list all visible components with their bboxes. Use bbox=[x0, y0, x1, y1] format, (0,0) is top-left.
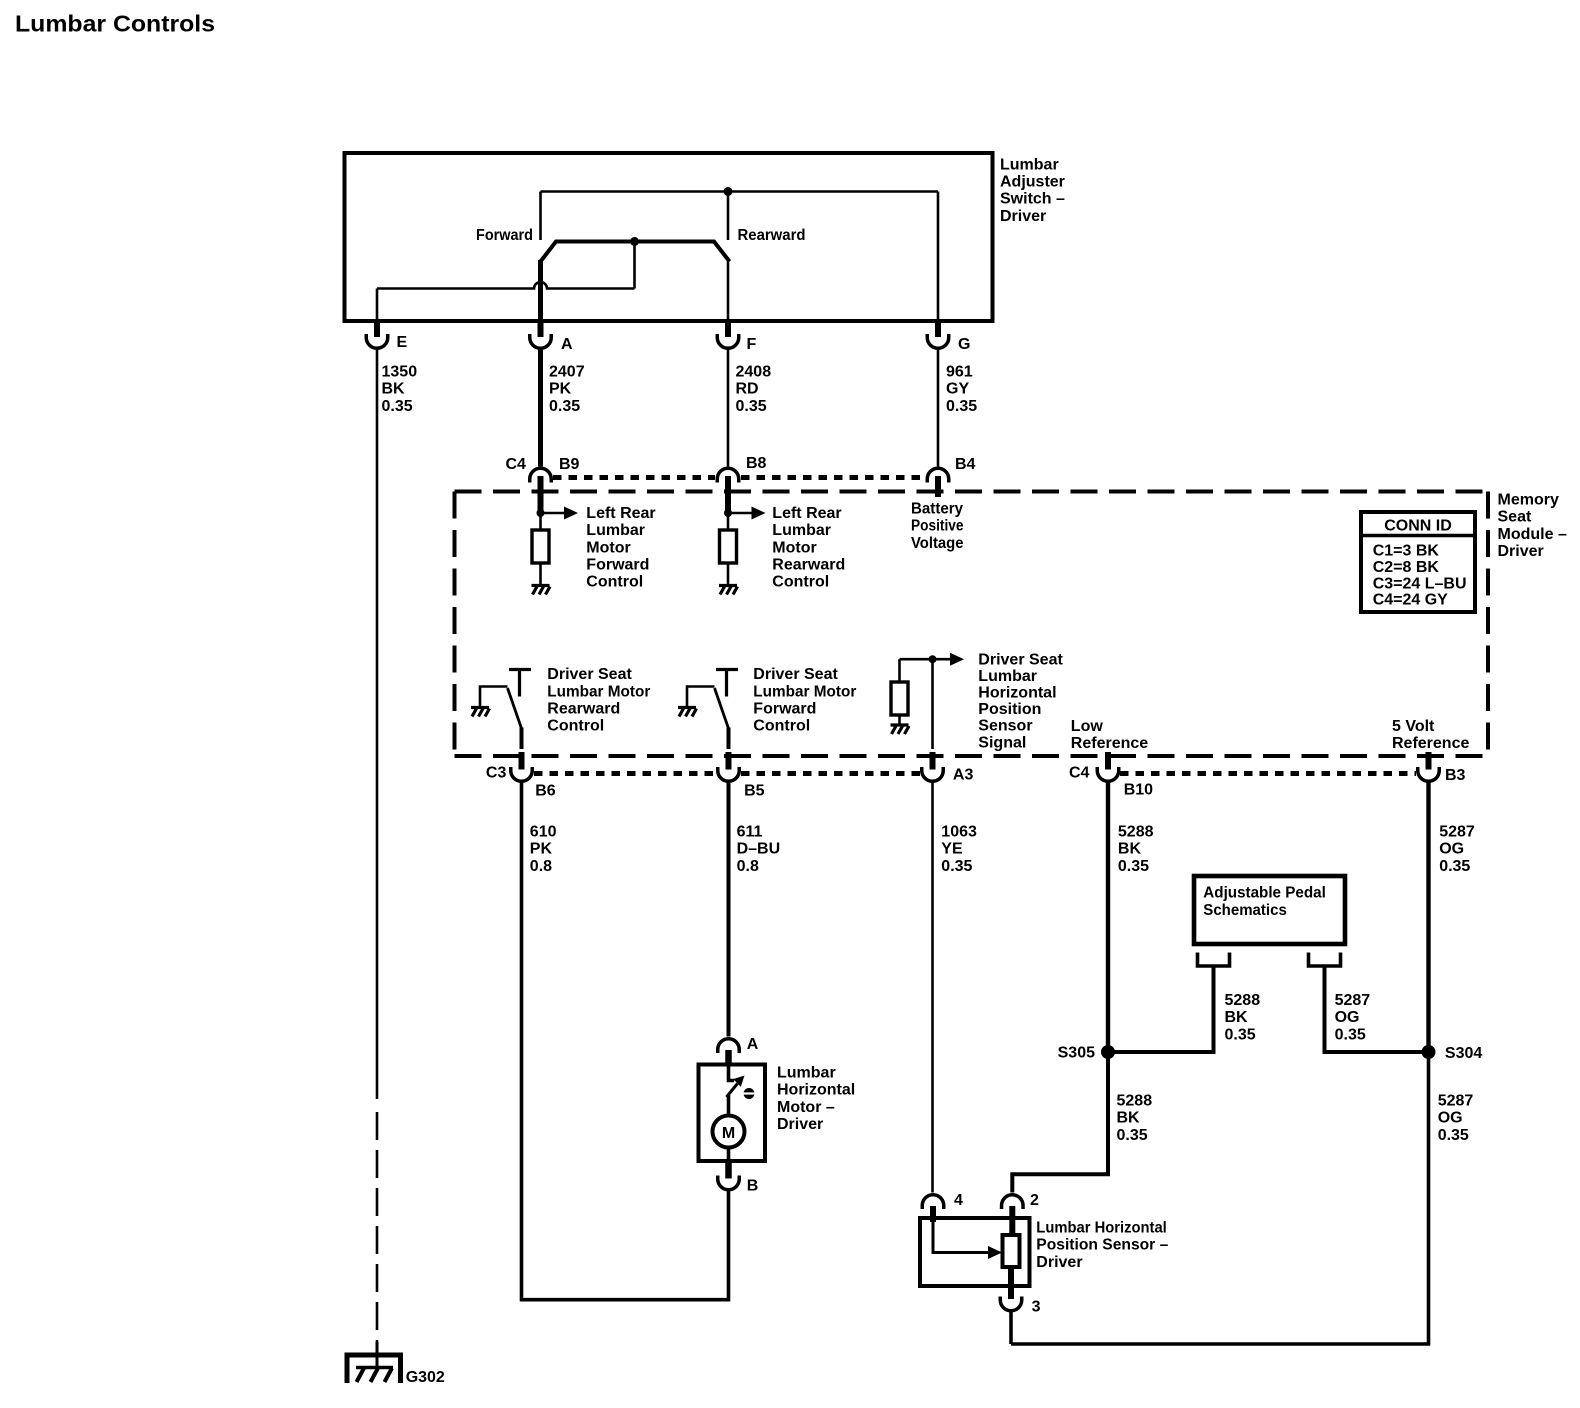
svg-text:C4=24 GY: C4=24 GY bbox=[1373, 592, 1448, 609]
label: 5 Volt Reference bbox=[1392, 718, 1469, 752]
svg-text:B9: B9 bbox=[559, 456, 580, 473]
connector stub (pedal schematics left) bbox=[1198, 953, 1230, 967]
wire: resistor R2 to ground bbox=[727, 563, 730, 585]
pin A stub into motor box bbox=[725, 1050, 732, 1066]
svg-text:Reference: Reference bbox=[1071, 735, 1148, 752]
svg-text:S304: S304 bbox=[1445, 1045, 1482, 1062]
wire 611 D-BU 0.8: B5 down to motor pin A bbox=[727, 783, 731, 1037]
switch: Driver Seat Lumbar Motor Forward Control bbox=[678, 670, 738, 750]
pin E stub bbox=[374, 320, 380, 337]
svg-text:Sensor: Sensor bbox=[978, 718, 1032, 735]
motor switch blade with arrow bbox=[727, 1084, 738, 1098]
label: circuit 610 PK 0.8 bbox=[530, 824, 557, 875]
wire: dashed ground run of circuit 1350 bbox=[376, 1112, 379, 1345]
svg-text:Lumbar: Lumbar bbox=[1000, 156, 1059, 173]
svg-text:B8: B8 bbox=[746, 455, 767, 472]
wire: B8 branch to resistor bbox=[727, 513, 730, 530]
label: circuit 5287 OG 0.35 (upper) bbox=[1439, 824, 1475, 875]
label: Low Reference bbox=[1071, 718, 1148, 752]
resistor R1 (B9 pull-down) bbox=[532, 530, 549, 563]
wire 1350 BK 0.35 from pin E bbox=[376, 350, 379, 1100]
svg-text:610: 610 bbox=[530, 824, 557, 841]
svg-text:Lumbar Horizontal: Lumbar Horizontal bbox=[1036, 1220, 1167, 1237]
svg-text:1350: 1350 bbox=[382, 364, 418, 381]
svg-text:OG: OG bbox=[1335, 1009, 1360, 1026]
svg-text:5287: 5287 bbox=[1439, 824, 1475, 841]
svg-text:Battery: Battery bbox=[911, 501, 963, 518]
wire 610 PK 0.8: B6 down, across, to motor pin B bbox=[522, 783, 729, 1300]
label: circuit 5287 OG 0.35 (pedal drop) bbox=[1335, 992, 1371, 1043]
ground (forward control branch) bbox=[678, 708, 697, 717]
svg-text:Lumbar: Lumbar bbox=[586, 522, 645, 539]
svg-text:F: F bbox=[747, 336, 757, 353]
wire: blade left end down to pin A bbox=[538, 260, 543, 321]
svg-text:0.35: 0.35 bbox=[1439, 858, 1470, 875]
svg-text:Schematics: Schematics bbox=[1203, 902, 1287, 919]
svg-text:Adjuster: Adjuster bbox=[1000, 174, 1065, 191]
svg-text:C3=24 L–BU: C3=24 L–BU bbox=[1373, 576, 1467, 593]
svg-text:Motor: Motor bbox=[586, 539, 630, 556]
sensor enclosure box bbox=[920, 1218, 1030, 1286]
svg-text:2408: 2408 bbox=[736, 364, 772, 381]
potentiometer element bbox=[1003, 1235, 1020, 1267]
ground (module internal, sensor branch) bbox=[891, 725, 910, 734]
svg-text:E: E bbox=[397, 334, 408, 351]
svg-text:M: M bbox=[722, 1125, 735, 1142]
svg-text:Driver Seat: Driver Seat bbox=[547, 666, 632, 683]
wire: ground riser and horizontal bbox=[480, 687, 508, 708]
svg-text:5287: 5287 bbox=[1335, 992, 1371, 1009]
wire 5288 BK 0.35: S305 down to sensor pin 2 bbox=[1012, 1052, 1108, 1193]
svg-text:Horizontal: Horizontal bbox=[777, 1082, 855, 1099]
svg-text:Low: Low bbox=[1071, 718, 1104, 735]
svg-text:PK: PK bbox=[530, 841, 553, 858]
svg-text:Lumbar Controls: Lumbar Controls bbox=[15, 11, 215, 37]
wire: blade right end down to pin F bbox=[727, 262, 730, 322]
svg-text:PK: PK bbox=[549, 381, 572, 398]
svg-text:Positive: Positive bbox=[911, 518, 964, 535]
switch: Driver Seat Lumbar Motor Rearward Control bbox=[471, 670, 531, 750]
fixed contact T bbox=[509, 670, 531, 697]
svg-text:GY: GY bbox=[946, 381, 969, 398]
label: circuit 5288 BK 0.35 (upper) bbox=[1118, 824, 1154, 875]
svg-text:3: 3 bbox=[1032, 1299, 1041, 1316]
svg-text:Driver: Driver bbox=[777, 1116, 823, 1133]
wire: sensor signal down to pin A3 bbox=[931, 659, 934, 749]
svg-text:B4: B4 bbox=[955, 456, 976, 473]
svg-text:Rearward: Rearward bbox=[547, 701, 620, 718]
module U1 Memory Seat Module - Driver: dashed enclosure bbox=[455, 492, 1489, 757]
svg-text:0.35: 0.35 bbox=[1438, 1127, 1469, 1144]
pin B stub below motor box bbox=[725, 1161, 732, 1179]
svg-text:BK: BK bbox=[1225, 1009, 1249, 1026]
wire 5287 OG 0.35: S304 down to sensor pin 3 loop bbox=[1011, 1052, 1429, 1344]
arrow: Left Rear Lumbar Motor Rearward Control bbox=[728, 512, 752, 515]
svg-text:B10: B10 bbox=[1124, 782, 1153, 799]
label: circuit 5288 BK 0.35 (pedal drop) bbox=[1225, 992, 1261, 1043]
wire: resistor R3 to ground bbox=[898, 715, 901, 725]
svg-text:2407: 2407 bbox=[549, 364, 585, 381]
connector pin A3 bbox=[922, 767, 944, 781]
node: junction on blade center tap bbox=[630, 237, 639, 246]
label: Left Rear Lumbar Motor Forward Control bbox=[586, 505, 655, 591]
svg-text:Module –: Module – bbox=[1498, 526, 1567, 543]
svg-text:Switch –: Switch – bbox=[1000, 191, 1065, 208]
svg-text:A: A bbox=[561, 336, 573, 353]
pin G stub bbox=[935, 320, 941, 337]
connector pin C4/B10 bbox=[1097, 767, 1119, 781]
motor contact dot bbox=[744, 1088, 755, 1099]
connector stub (pedal schematics right) bbox=[1309, 953, 1341, 967]
CONN ID table bbox=[1361, 512, 1475, 612]
svg-text:G: G bbox=[958, 336, 970, 353]
label: circuit 5288 BK 0.35 (lower) bbox=[1117, 1093, 1153, 1144]
label: circuit 961 GY 0.35 bbox=[946, 364, 977, 415]
svg-text:Motor: Motor bbox=[772, 539, 816, 556]
wire: resistor R1 to ground bbox=[539, 563, 542, 585]
svg-text:B3: B3 bbox=[1445, 767, 1466, 784]
svg-text:5288: 5288 bbox=[1225, 992, 1261, 1009]
label: circuit 1063 YE 0.35 bbox=[941, 824, 977, 875]
connector pin E bbox=[366, 334, 388, 348]
wiper arrowhead bbox=[988, 1246, 1002, 1259]
wire 5287 OG 0.35 pedal drop bbox=[1325, 966, 1429, 1052]
svg-text:0.35: 0.35 bbox=[1118, 858, 1149, 875]
connector pin B (motor) bbox=[718, 1176, 740, 1190]
splice S305 bbox=[1101, 1045, 1115, 1059]
motor M circle bbox=[713, 1116, 745, 1148]
svg-text:Rearward: Rearward bbox=[738, 227, 806, 244]
switch blade (open) bbox=[715, 688, 729, 729]
svg-text:5288: 5288 bbox=[1118, 824, 1154, 841]
connector pin C3/B6 bbox=[511, 767, 533, 781]
svg-text:0.8: 0.8 bbox=[737, 858, 759, 875]
svg-text:0.35: 0.35 bbox=[946, 398, 977, 415]
in-line harness connector dotted line B9-B8-B4 bbox=[553, 475, 715, 480]
wire: drop to pin E bbox=[376, 289, 379, 322]
resistor R3 (sensor signal pull) bbox=[891, 682, 908, 715]
svg-text:Control: Control bbox=[547, 718, 604, 735]
connector pin B8 bbox=[717, 468, 739, 482]
label: Driver Seat Lumbar Motor Forward Control bbox=[753, 666, 856, 735]
connector pin 4 bbox=[922, 1195, 944, 1209]
wire: blade to pin B5 bbox=[727, 728, 731, 750]
pin 4 stub into sensor box bbox=[930, 1206, 936, 1222]
svg-text:Adjustable Pedal: Adjustable Pedal bbox=[1203, 885, 1326, 902]
svg-text:Voltage: Voltage bbox=[911, 535, 964, 552]
in-line harness connector dotted line C3-B5-A3 bbox=[534, 771, 716, 776]
wire: top bus down to pin G bbox=[937, 192, 940, 322]
wire: B9 branch to resistor bbox=[539, 513, 542, 530]
wire: switch internal top bus bbox=[541, 190, 939, 193]
label: Driver Seat Lumbar Motor Rearward Control bbox=[547, 666, 650, 735]
wire 2408 RD 0.35 from pin F to B8 bbox=[727, 350, 730, 467]
motor enclosure box bbox=[699, 1065, 766, 1162]
ground (rearward control branch) bbox=[471, 708, 490, 717]
wire: motor to pin B bbox=[727, 1148, 731, 1162]
svg-text:0.8: 0.8 bbox=[530, 858, 552, 875]
label: Driver Seat Lumbar Horizontal Position Sensor Signal bbox=[978, 651, 1063, 751]
svg-text:Forward: Forward bbox=[586, 557, 649, 574]
svg-text:0.35: 0.35 bbox=[1335, 1026, 1366, 1043]
pin F stub bbox=[725, 320, 731, 337]
svg-text:5288: 5288 bbox=[1117, 1093, 1153, 1110]
svg-text:C4: C4 bbox=[506, 456, 527, 473]
switch SW1 Lumbar Adjuster Switch - Driver: enclosure box bbox=[345, 153, 993, 321]
svg-text:G302: G302 bbox=[406, 1369, 445, 1386]
svg-text:A3: A3 bbox=[953, 767, 974, 784]
svg-text:C2=8 BK: C2=8 BK bbox=[1373, 559, 1440, 576]
svg-text:961: 961 bbox=[946, 364, 973, 381]
pin B4 stub into module bbox=[935, 476, 941, 497]
svg-text:Forward: Forward bbox=[476, 227, 533, 244]
pin A stub bbox=[538, 320, 544, 337]
svg-text:Signal: Signal bbox=[978, 734, 1026, 751]
wire 5288 BK 0.35 pedal drop bbox=[1108, 966, 1214, 1052]
ground G302 bbox=[347, 1342, 401, 1383]
sensor signal branch: horizontal wire with arrow bbox=[900, 658, 951, 661]
module bottom pin stubs C3/B6, B5, A3, C4/B10, B3 bbox=[519, 752, 525, 770]
svg-text:Driver Seat: Driver Seat bbox=[978, 651, 1063, 668]
svg-text:1063: 1063 bbox=[941, 824, 977, 841]
connector pin B5 bbox=[718, 767, 740, 781]
svg-text:Rearward: Rearward bbox=[772, 557, 845, 574]
connector pin B3 bbox=[1418, 767, 1440, 781]
connector pin B9 bbox=[530, 468, 552, 482]
svg-text:S305: S305 bbox=[1058, 1045, 1095, 1062]
ground (module internal, B8 branch) bbox=[719, 586, 738, 595]
svg-text:Driver: Driver bbox=[1000, 208, 1046, 225]
connector pin B4 bbox=[927, 468, 949, 482]
node: junction on sensor signal wire bbox=[929, 655, 937, 663]
label: circuit 2407 PK 0.35 bbox=[549, 364, 585, 415]
switch blade (Forward/Rearward rocker) bbox=[541, 242, 730, 262]
svg-text:D–BU: D–BU bbox=[737, 841, 781, 858]
svg-text:OG: OG bbox=[1438, 1110, 1463, 1127]
wire 1063 YE 0.35: A3 down to sensor pin 4 bbox=[931, 783, 934, 1193]
svg-text:B5: B5 bbox=[744, 783, 765, 800]
wire: center tap horizontal run to pin E (hops over pin A wire) bbox=[377, 282, 635, 289]
svg-text:Driver: Driver bbox=[1498, 543, 1544, 560]
svg-text:Left Rear: Left Rear bbox=[772, 505, 841, 522]
arrow: Left Rear Lumbar Motor Forward Control bbox=[541, 512, 565, 515]
wire: blade center tap drop bbox=[633, 242, 636, 289]
svg-text:YE: YE bbox=[941, 841, 963, 858]
wire: ground riser and horizontal bbox=[687, 687, 715, 708]
splice S304 bbox=[1422, 1045, 1436, 1059]
box: Adjustable Pedal Schematics bbox=[1194, 876, 1345, 944]
label: Lumbar Horizontal Position Sensor - Driver bbox=[1036, 1220, 1168, 1271]
svg-text:A: A bbox=[747, 1036, 759, 1053]
svg-text:0.35: 0.35 bbox=[736, 398, 767, 415]
svg-text:Reference: Reference bbox=[1392, 735, 1469, 752]
wire 5287 OG 0.35: B3 down to S304 bbox=[1426, 783, 1430, 1053]
pin 2 stub to potentiometer top bbox=[1009, 1206, 1015, 1236]
label: Lumbar Adjuster Switch - Driver bbox=[1000, 156, 1065, 225]
svg-text:611: 611 bbox=[737, 824, 763, 841]
wire: pin A into switch bbox=[729, 1065, 735, 1081]
label: Memory Seat Module - Driver bbox=[1498, 492, 1567, 561]
wire: sensor signal branch to resistor bbox=[898, 659, 901, 682]
svg-text:Lumbar: Lumbar bbox=[978, 668, 1037, 685]
svg-text:Memory: Memory bbox=[1498, 492, 1559, 509]
svg-text:C3: C3 bbox=[486, 765, 507, 782]
resistor R2 (B8 pull-down) bbox=[720, 530, 737, 563]
node: junction on B9 branch bbox=[537, 509, 545, 517]
svg-text:Driver Seat: Driver Seat bbox=[753, 666, 838, 683]
svg-text:5 Volt: 5 Volt bbox=[1392, 718, 1435, 735]
wire: Forward fixed contact drop bbox=[539, 192, 542, 241]
label: circuit 5287 OG 0.35 (lower) bbox=[1438, 1093, 1474, 1144]
svg-text:Horizontal: Horizontal bbox=[978, 685, 1056, 702]
wire: blade to motor bbox=[727, 1095, 731, 1116]
svg-text:4: 4 bbox=[954, 1192, 963, 1209]
svg-text:0.35: 0.35 bbox=[549, 398, 580, 415]
svg-text:Motor –: Motor – bbox=[777, 1099, 835, 1116]
svg-text:C4: C4 bbox=[1069, 765, 1090, 782]
svg-text:BK: BK bbox=[1117, 1110, 1141, 1127]
pin B9 stub into module bbox=[538, 476, 544, 513]
label: circuit 1350 BK 0.35 bbox=[382, 364, 418, 415]
svg-text:5287: 5287 bbox=[1438, 1093, 1474, 1110]
wire: pin 3 down to bottom loop bbox=[1009, 1312, 1013, 1344]
label: circuit 611 D-BU 0.8 bbox=[737, 824, 781, 875]
connector pin 2 bbox=[1002, 1195, 1024, 1209]
svg-text:C1=3 BK: C1=3 BK bbox=[1373, 542, 1440, 559]
wire 961 GY 0.35 from pin G to B4 bbox=[937, 350, 940, 467]
svg-text:Control: Control bbox=[753, 718, 810, 735]
pin 3 stub from potentiometer bottom bbox=[1008, 1267, 1014, 1299]
wire: Rearward fixed contact drop bbox=[727, 192, 730, 241]
connector pin G bbox=[927, 334, 949, 348]
in-line harness connector dotted line B10-B3 bbox=[1120, 771, 1416, 776]
connector pin F bbox=[717, 334, 739, 348]
svg-text:0.35: 0.35 bbox=[1225, 1026, 1256, 1043]
wire: pin 4 to wiper bbox=[933, 1222, 988, 1253]
svg-text:B: B bbox=[747, 1178, 759, 1195]
wire: blade to pin C3/B6 bbox=[520, 728, 524, 750]
pin B8 stub into module bbox=[725, 476, 731, 513]
svg-text:0.35: 0.35 bbox=[941, 858, 972, 875]
label: circuit 2408 RD 0.35 bbox=[736, 364, 772, 415]
ground (module internal, B9 branch) bbox=[532, 586, 551, 595]
svg-text:CONN ID: CONN ID bbox=[1384, 518, 1452, 535]
label: Lumbar Horizontal Motor - Driver bbox=[777, 1065, 855, 1134]
svg-text:Left Rear: Left Rear bbox=[586, 505, 655, 522]
svg-text:Position Sensor –: Position Sensor – bbox=[1036, 1237, 1168, 1254]
svg-text:B6: B6 bbox=[535, 783, 556, 800]
svg-text:Control: Control bbox=[772, 574, 829, 591]
svg-text:Control: Control bbox=[586, 574, 643, 591]
svg-text:Seat: Seat bbox=[1498, 509, 1532, 526]
svg-text:2: 2 bbox=[1030, 1192, 1039, 1209]
svg-text:0.35: 0.35 bbox=[1117, 1127, 1148, 1144]
svg-text:BK: BK bbox=[1118, 841, 1142, 858]
label: Battery Positive Voltage bbox=[911, 501, 964, 552]
svg-text:Lumbar Motor: Lumbar Motor bbox=[547, 683, 650, 700]
connector pin A (motor) bbox=[718, 1039, 740, 1053]
svg-text:OG: OG bbox=[1439, 841, 1464, 858]
wire 5288 BK 0.35: B10 down to S305 bbox=[1106, 783, 1110, 1053]
connector pin A bbox=[530, 334, 552, 348]
svg-text:RD: RD bbox=[736, 381, 759, 398]
svg-text:Driver: Driver bbox=[1036, 1254, 1082, 1271]
node: junction on top bus above Rearward contact bbox=[724, 187, 733, 196]
node: junction on B8 branch bbox=[724, 509, 732, 517]
svg-text:Forward: Forward bbox=[753, 701, 816, 718]
svg-text:0.35: 0.35 bbox=[382, 398, 413, 415]
svg-text:Lumbar Motor: Lumbar Motor bbox=[753, 683, 856, 700]
wire 2407 PK 0.35 from pin A to B9 bbox=[538, 350, 543, 467]
label: Left Rear Lumbar Motor Rearward Control bbox=[772, 505, 845, 591]
svg-text:Lumbar: Lumbar bbox=[777, 1065, 836, 1082]
switch blade (open) bbox=[508, 688, 522, 729]
svg-text:Lumbar: Lumbar bbox=[772, 522, 831, 539]
svg-text:Position: Position bbox=[978, 701, 1041, 718]
svg-text:BK: BK bbox=[382, 381, 406, 398]
connector pin 3 bbox=[1000, 1297, 1022, 1311]
fixed contact T bbox=[716, 670, 738, 697]
